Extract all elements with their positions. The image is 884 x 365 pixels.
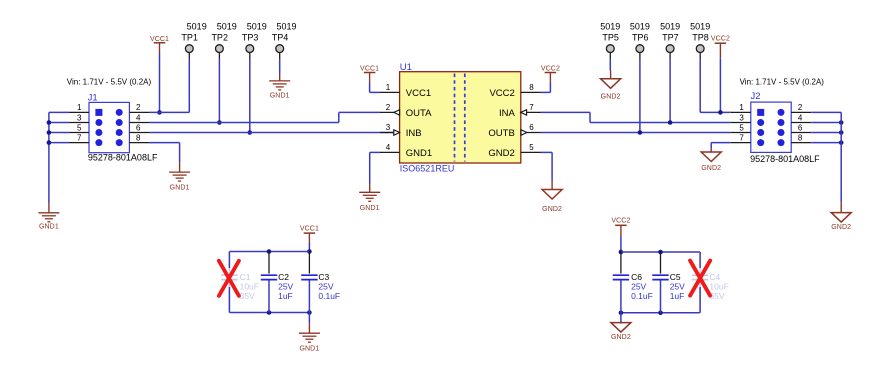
ground GND1 bottom-left [38,212,59,214]
svg-text:10uF: 10uF [709,282,728,292]
svg-text:TP8: TP8 [692,32,709,42]
junction dot top rail C6 [619,250,624,255]
wire right bus rowA [811,111,841,113]
wire C4 bottom lead blue [699,287,701,313]
junction dot VCC1/rowA [157,110,162,115]
svg-text:0.1uF: 0.1uF [318,291,340,301]
pin stub U1 pin5 [521,151,541,153]
svg-text:5019: 5019 [217,22,237,32]
wire cap top rail right [621,251,700,253]
svg-text:95278-801A08LF: 95278-801A08LF [750,154,820,164]
wire pin8 corner down [179,143,181,163]
svg-text:VCC1: VCC1 [406,88,431,99]
op-amp U1 ISO6521REU body [400,72,521,163]
svg-text:Vin: 1.71V - 5.5V (0.2A): Vin: 1.71V - 5.5V (0.2A) [67,78,152,87]
wire row A: J1 pin2 to TP1 [149,111,189,113]
svg-text:7: 7 [529,103,534,112]
svg-text:2: 2 [798,103,803,112]
ground GND1 at IC [359,191,380,193]
svg-text:10uF: 10uF [240,282,259,292]
svg-text:VCC2: VCC2 [541,66,560,73]
svg-text:25V: 25V [318,282,333,292]
svg-text:VCC2: VCC2 [489,88,514,99]
wire pin7 red tail [710,148,712,152]
wire OUTB to J2 pin5 [541,132,731,134]
svg-text:1: 1 [739,103,744,112]
svg-text:C3: C3 [318,272,329,282]
svg-text:TP3: TP3 [242,32,259,42]
svg-text:GND2: GND2 [488,148,514,159]
ground GND1 below caps [299,332,320,334]
wire GND2 below caps [620,313,622,323]
ground GND2 at IC [542,190,562,200]
pin arrow OUTA out [394,110,400,115]
svg-text:GND2: GND2 [611,334,631,341]
svg-text:VCC1: VCC1 [300,225,319,232]
svg-text:ISO6521REU: ISO6521REU [400,164,455,174]
ground GND2 below caps [611,323,631,333]
connector J2 [751,102,791,152]
svg-text:VCC1: VCC1 [150,36,169,43]
ground GND2 at J2 pin7 [701,152,721,162]
wire cap top rail left [229,251,309,253]
junction dot TP3/rowC [248,130,253,135]
wire GND2 drop [551,152,553,180]
junction dot bottom rail C3 [307,310,312,315]
wire pin7 drop [710,143,712,148]
svg-text:5019: 5019 [187,22,207,32]
junction dot bottom rail C6 [619,310,624,315]
svg-text:1: 1 [77,103,82,112]
junction dot TP2/rowB [217,120,222,125]
svg-text:4: 4 [798,113,803,122]
svg-text:GND1: GND1 [360,205,380,212]
ground GND1 under TP4 [269,80,290,82]
wire row B: J1 pin4 toward IC [149,122,338,124]
wire GND1 red tail below caps [308,323,310,333]
svg-text:J1: J1 [88,93,98,104]
svg-text:25V: 25V [631,282,646,292]
svg-text:GND2: GND2 [601,94,621,101]
wire J1 pin1 to bus [49,111,69,113]
wire J2 pin7 to corner [711,142,731,144]
svg-text:TP5: TP5 [602,32,619,42]
svg-text:3: 3 [739,113,744,122]
junction dot rbus rowC [839,130,844,135]
wire GND1 red tail [369,184,371,192]
junction dot bottom rail C5 [658,310,663,315]
svg-text:OUTB: OUTB [488,128,514,139]
junction dot bottom rail C2 [267,310,272,315]
wire right bus rowC [811,132,841,134]
wire pin8 red tail [179,163,181,172]
svg-text:J2: J2 [751,91,761,102]
junction dot VCC2/rowA [718,110,723,115]
svg-text:GND1: GND1 [39,224,59,231]
wire J1 pin3 to bus [49,122,69,124]
wire GND1 below caps [308,313,310,324]
ground GND2 right bus [831,213,851,223]
svg-text:7: 7 [77,133,82,142]
wire GND2 corner at IC pin5 [541,151,553,153]
svg-text:C4: C4 [709,272,720,282]
wire VCC2 stem down [719,58,721,112]
svg-text:C5: C5 [670,272,681,282]
wire VCC2 net TP8 to J2 pin1 [700,111,731,113]
wire VCC1 stem blue [369,82,371,92]
svg-text:5019: 5019 [247,22,267,32]
wire OUTA jog to IC pin2 [339,111,380,113]
capacitor C1 (DNP, faint) [228,252,230,274]
wire right bus rowD [811,142,841,144]
svg-text:5019: 5019 [690,22,710,32]
wire bus red tail [48,203,50,213]
wire right bus rowB [811,122,841,124]
junction dot bus rowC [47,130,52,135]
svg-text:25V: 25V [278,282,293,292]
svg-text:TP2: TP2 [211,32,228,42]
pin arrow INB in [394,130,400,135]
svg-text:GND2: GND2 [831,224,851,231]
pin arrow INA in [521,110,527,115]
svg-text:U1: U1 [400,62,412,73]
svg-text:1uF: 1uF [670,291,685,301]
svg-text:GND2: GND2 [542,206,562,213]
svg-text:VCC2: VCC2 [611,217,630,224]
junction dot TP6/rowC [638,130,643,135]
svg-text:VCC1: VCC1 [360,66,379,73]
svg-text:6: 6 [529,123,534,132]
junction dot rbus rowD [839,140,844,145]
svg-text:C6: C6 [631,272,642,282]
svg-text:5: 5 [739,123,744,132]
wire VCC2 to pin8 [541,91,551,93]
junction dot top rail C5 [658,250,663,255]
junction dot top rail C3 [307,249,312,254]
wire left bus vertical [48,112,50,203]
svg-text:C1: C1 [240,272,251,282]
pin stub U1 pin1 [380,91,400,93]
wire GND2 red tail below caps [620,323,622,324]
svg-text:7: 7 [739,133,744,142]
wire C1 top lead blue [228,252,230,269]
wire INA from IC pin7 [541,111,591,113]
junction dot TP7/rowB [668,120,673,125]
capacitor C3 [308,252,310,274]
wire right bus vertical [840,112,842,202]
svg-text:8: 8 [529,83,534,92]
wire TP4 to GND1 (red tail) [279,74,281,81]
svg-text:VCC2: VCC2 [711,36,730,43]
svg-text:8: 8 [136,133,141,142]
svg-text:35V: 35V [240,291,255,301]
svg-text:INB: INB [406,128,422,139]
wire GND1 corner at IC pin4 [370,151,380,153]
svg-text:Vin: 1.71V - 5.5V (0.2A): Vin: 1.71V - 5.5V (0.2A) [740,78,825,87]
svg-text:TP6: TP6 [632,32,649,42]
wire VCC2 stem blue [549,82,551,92]
wire J1 pin5 to bus [49,132,69,134]
svg-text:GND1: GND1 [170,184,190,191]
wire VCC1 stem down to row A [159,53,161,113]
DNP cross over C1 [219,261,239,296]
wire GND1 drop [369,152,371,184]
isolation dashed line 1 [454,74,456,162]
wire row D: J1 pin8 stub to corner [149,142,179,144]
svg-text:3: 3 [77,113,82,122]
wire C1 bottom lead blue [228,287,230,313]
wire cap bottom rail right [621,312,700,314]
pin stub U1 pin8 [521,91,541,93]
wire C4 top lead blue [699,252,701,268]
svg-text:GND1: GND1 [299,346,319,353]
svg-text:GND1: GND1 [406,148,432,159]
wire row C: J1 pin6 to INB [149,132,394,134]
svg-text:0.1uF: 0.1uF [631,291,653,301]
capacitor C2 [268,252,270,274]
svg-text:5019: 5019 [660,22,680,32]
svg-text:95278-801A08LF: 95278-801A08LF [88,152,158,162]
wire J1 pin7 to bus [49,142,69,144]
svg-text:6: 6 [798,123,803,132]
svg-text:5019: 5019 [600,22,620,32]
svg-text:25V: 25V [670,282,685,292]
wire VCC2 stem to rail [620,236,622,252]
svg-text:5019: 5019 [630,22,650,32]
wire cap bottom rail left [229,312,309,314]
svg-text:C2: C2 [278,272,289,282]
svg-text:TP1: TP1 [181,32,198,42]
wire GND2 red tail [551,181,553,190]
pin stub U1 pin3 [380,132,400,134]
wire right bus red tail [840,203,842,213]
wire INA jog down [589,112,591,122]
wire INA to J2 pin3 [590,122,731,124]
wire VCC1 stem to rail [308,243,310,252]
wire TP5 red tail [610,71,612,79]
junction dot bus rowD [47,140,52,145]
svg-text:4: 4 [386,143,391,152]
svg-text:1uF: 1uF [278,291,293,301]
svg-text:8: 8 [798,133,803,142]
pin stub U1 pin6 [521,132,541,134]
wire OUTA jog vertical [338,112,340,122]
DNP cross over C4 [690,261,710,296]
junction dot bus rowB [47,120,52,125]
pin stub U1 pin4 [380,151,400,153]
svg-text:5: 5 [529,143,534,152]
svg-text:OUTA: OUTA [406,108,432,119]
svg-text:INA: INA [499,108,516,119]
svg-text:5: 5 [77,123,82,132]
svg-text:4: 4 [136,113,141,122]
svg-text:2: 2 [136,103,141,112]
junction dot top rail C2 [267,249,272,254]
isolation dashed line 2 [464,74,466,162]
wire VCC1 to pin1 [370,91,380,93]
svg-text:2: 2 [386,103,391,112]
svg-text:TP7: TP7 [662,32,679,42]
capacitor C6 [620,252,622,274]
ground GND2 under TP5 [601,79,621,89]
capacitor C5 [660,252,662,274]
svg-text:TP4: TP4 [272,32,289,42]
svg-text:5019: 5019 [276,22,296,32]
pin stub U1 pin7 [521,111,541,113]
svg-text:6: 6 [136,123,141,132]
svg-text:GND1: GND1 [270,93,290,100]
connector J1 [89,102,129,152]
svg-text:3: 3 [386,123,391,132]
svg-text:GND2: GND2 [701,165,721,172]
svg-text:1: 1 [386,83,391,92]
pin stub U1 pin2 [380,111,400,113]
capacitor C4 (DNP, faint) [699,252,701,274]
pin arrow OUTB out [521,130,527,135]
ground GND1 at J1 pin8 [169,171,190,173]
junction dot rbus rowB [839,120,844,125]
